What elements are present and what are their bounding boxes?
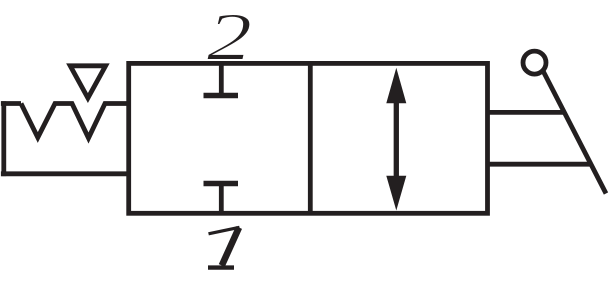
detent pawl triangle (70, 66, 105, 98)
detent notched rail (zigzag) (21, 104, 129, 139)
flow path double arrow (386, 68, 406, 211)
port label 1 (208, 227, 240, 267)
lever arm wire (544, 72, 607, 194)
lever upper link wire (488, 110, 565, 115)
valve body outline (two-position box) (129, 63, 488, 213)
blocked port 1 symbol (bottom T) (204, 184, 239, 214)
detent spring housing left vertical (1, 101, 6, 176)
svg-text:2: 2 (207, 1, 252, 75)
detent bottom rail (1, 171, 131, 176)
lever lower link wire (488, 162, 591, 167)
detent top rail (1, 101, 21, 106)
position divider wire (308, 63, 313, 213)
blocked port 2 symbol (top T) (204, 63, 239, 95)
lever pivot circle (523, 51, 546, 74)
